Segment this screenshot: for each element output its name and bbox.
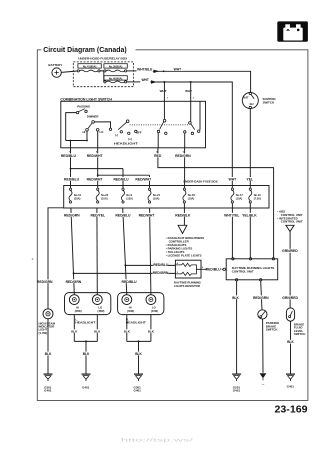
svg-text:HI: HI	[82, 130, 85, 134]
svg-text:BLK: BLK	[94, 330, 101, 334]
svg-text:RED/YEL: RED/YEL	[90, 213, 105, 217]
fuse No.22 (10A)	[96, 188, 109, 203]
wire BLK control unit to ground	[236, 281, 238, 374]
wire RED/BLK fuse18 out	[183, 203, 185, 225]
wire label RED/GRN col1	[66, 279, 82, 284]
svg-text:No.9: No.9	[126, 193, 132, 197]
wire BLK R headlight LO	[150, 315, 152, 342]
svg-text:WHT: WHT	[174, 68, 182, 72]
battery	[48, 63, 62, 78]
svg-text:WHT/YEL: WHT/YEL	[224, 213, 239, 217]
svg-text:RED/BLU: RED/BLU	[113, 177, 129, 181]
svg-text:No.13: No.13	[74, 193, 82, 197]
fuse No.9 (10A)	[122, 188, 134, 203]
svg-text:(45W): (45W)	[97, 310, 104, 313]
fuse No.41 (80A)	[77, 64, 101, 72]
wire RED/WHT pin down with jog to col4	[98, 148, 150, 188]
wire label WHT/BLU	[137, 67, 153, 71]
fuse No.40 (40A)	[104, 76, 128, 83]
svg-text:No.17: No.17	[236, 193, 244, 197]
wire RED/WHT col4 to R headlight LO	[150, 208, 151, 295]
wire dimmer HI to pin1 bus	[66, 131, 87, 140]
note ABS / integrated control unit	[277, 210, 303, 224]
wire BLK high beam indicator to ground	[47, 319, 49, 374]
wire label YEL	[245, 177, 254, 181]
svg-text:RED/WHT: RED/WHT	[135, 177, 152, 181]
wire label GRN/RED	[282, 249, 298, 253]
wire RED/BLU col3 to R headlight HI	[123, 208, 127, 295]
svg-text:No.22: No.22	[101, 193, 109, 197]
wire label RED/WHT row3	[139, 213, 156, 217]
svg-text:OFF: OFF	[136, 131, 142, 135]
svg-text:RED/WHT: RED/WHT	[87, 154, 104, 158]
wire label BLK	[70, 329, 78, 333]
svg-text:SWITCH: SWITCH	[294, 332, 305, 336]
wire RED/GRN tap to left	[48, 208, 64, 309]
wire label WHT	[141, 78, 151, 82]
wire label BLK	[123, 329, 131, 333]
fuse No.16 (7.5A)	[249, 188, 262, 203]
svg-text:RED/BLU: RED/BLU	[153, 263, 169, 267]
wire RED/GRN junction col1 to resistor	[74, 272, 176, 274]
wire dimmer LO to pin	[97, 131, 99, 148]
svg-text:IG2: IG2	[250, 103, 255, 106]
arrow from ABS note	[286, 225, 294, 231]
wire RED/BLU junction col3 to resistor	[125, 264, 175, 266]
svg-text:DIMMER: DIMMER	[87, 115, 100, 119]
wire RED/BLU pin1 down with jog to col3	[71, 148, 124, 188]
wire label BLK	[147, 329, 155, 333]
wire label RED/BLU row2b	[113, 177, 129, 181]
wire pole3 aux contact feed	[199, 101, 201, 130]
wire label RED/BLU	[61, 153, 77, 157]
wire label WHT/YEL	[224, 213, 240, 217]
svg-text:HEADLIGHT: HEADLIGHT	[126, 321, 146, 325]
svg-text:RED/WHT: RED/WHT	[87, 177, 104, 181]
junction	[190, 81, 192, 83]
svg-text:WHT/BLU: WHT/BLU	[137, 68, 153, 72]
svg-text:RED/GRN: RED/GRN	[37, 280, 53, 284]
dimmer switch	[82, 115, 104, 134]
wire BLK R headlight HI	[126, 315, 128, 342]
svg-text:(•): (•)	[115, 133, 118, 137]
junction	[73, 272, 75, 274]
daytime running lights control unit	[226, 258, 278, 281]
svg-text:SWITCH: SWITCH	[266, 328, 277, 332]
svg-text:No.41(80A): No.41(80A)	[83, 64, 97, 68]
wire RED/BLU resistor to control unit	[201, 268, 226, 270]
svg-text:No.16: No.16	[254, 193, 262, 197]
wire label RED/WHT row2	[87, 177, 104, 181]
svg-text:YEL/BLK: YEL/BLK	[242, 213, 257, 217]
wire label RED/BLU resistor input	[153, 263, 169, 268]
svg-text:YEL: YEL	[246, 177, 253, 181]
ignition switch	[242, 92, 275, 109]
wire BLK brake fluid switch to ground	[290, 321, 292, 374]
svg-text:(10A): (10A)	[153, 196, 160, 200]
svg-text:(10A): (10A)	[188, 196, 195, 200]
wire RED/GRN control unit to parking brake switch	[261, 281, 262, 310]
page frame border	[37, 50, 308, 401]
pin numbers	[69, 98, 195, 154]
svg-text:BATTERY: BATTERY	[48, 63, 62, 67]
L headlight	[65, 293, 111, 325]
wire pin1 drop	[70, 141, 72, 148]
headlight switch pole1	[109, 120, 142, 146]
svg-text:No.39(50A): No.39(50A)	[109, 64, 123, 68]
body ground parking brake switch	[260, 373, 267, 384]
daytime running lights resistor	[174, 260, 204, 288]
wire label RED/GRN	[253, 295, 269, 299]
svg-text:UNDER-DASH FUSE BOX: UNDER-DASH FUSE BOX	[183, 179, 218, 183]
svg-text:23-169: 23-169	[275, 404, 308, 415]
svg-text:RED/BLU: RED/BLU	[206, 268, 222, 272]
wire label GRN/RED	[282, 295, 298, 299]
svg-text:GRN/RED: GRN/RED	[282, 249, 298, 253]
svg-text:CONTROL UNIT: CONTROL UNIT	[232, 269, 254, 273]
headlight switch pole2	[157, 119, 167, 134]
wire YEL ignition IG2 to fuse No.16	[249, 109, 251, 188]
wire passing to pin1 bus	[66, 113, 77, 141]
svg-text:(10A): (10A)	[126, 196, 133, 200]
fuse No.13 (10A)	[69, 188, 82, 203]
ground G201/G401 control unit	[232, 374, 241, 393]
wire label BLK	[286, 340, 294, 344]
wire RED/GRN col1 to L headlight HI	[71, 208, 74, 295]
ground G401 L headlight	[82, 374, 91, 389]
svg-text:(65W): (65W)	[127, 310, 134, 313]
wire BLK merge L headlight	[74, 341, 97, 373]
brake fluid level switch	[286, 308, 305, 336]
svg-text:GRN/RED: GRN/RED	[282, 296, 298, 300]
junction	[124, 264, 126, 266]
parking brake switch	[258, 310, 280, 332]
svg-text:(1.4W): (1.4W)	[39, 331, 48, 335]
svg-text:htto://tsp.ws/: htto://tsp.ws/	[121, 438, 195, 443]
wire WHT/BLU - WHT to ignition switch BAT	[127, 70, 251, 93]
svg-text:No.40(40A): No.40(40A)	[109, 76, 123, 80]
wire RED from switch to control unit	[158, 148, 274, 258]
svg-text:RED/GRN: RED/GRN	[175, 154, 191, 158]
svg-text:COMBINATION LIGHT SWITCH: COMBINATION LIGHT SWITCH	[60, 98, 112, 102]
chapter tab battery icon	[277, 21, 308, 41]
junction	[97, 174, 99, 176]
svg-text:G401: G401	[82, 385, 90, 389]
svg-text:BLK: BLK	[232, 296, 239, 300]
svg-text:PASSING: PASSING	[77, 104, 91, 108]
svg-text:UNDER-HOOD FUSE/RELAY BOX: UNDER-HOOD FUSE/RELAY BOX	[78, 57, 128, 61]
wire WHT drop to light switch pole3	[190, 82, 192, 101]
junction	[85, 340, 87, 342]
svg-text:G401: G401	[233, 389, 241, 393]
wire fuse41 to fuse39	[100, 71, 104, 82]
combination light switch box	[60, 98, 205, 148]
wire label WHT	[228, 177, 238, 181]
svg-text:G401: G401	[134, 389, 142, 393]
junction	[70, 168, 72, 170]
svg-text:No.21: No.21	[153, 193, 161, 197]
fuse No.21 (10A)	[148, 188, 161, 203]
svg-text:RED: RED	[154, 154, 162, 158]
svg-text:RED/BLU: RED/BLU	[64, 177, 80, 181]
svg-text:• LICENSE PLATE LIGHTS: • LICENSE PLATE LIGHTS	[166, 254, 202, 258]
wire parking brake switch to ground	[262, 319, 264, 373]
svg-text:BAT: BAT	[244, 97, 249, 100]
under-dash fuse box	[64, 179, 269, 208]
wire label RED/GRN resistor input	[153, 271, 169, 276]
svg-text:(45W): (45W)	[151, 310, 158, 313]
svg-text:HEADLIGHT: HEADLIGHT	[114, 142, 138, 146]
wire YEL/BLK fuse16 to control unit	[249, 203, 251, 258]
svg-text:BLK: BLK	[148, 330, 155, 334]
arrow to lights	[178, 225, 187, 233]
svg-text:LIGHTS RESISTOR: LIGHTS RESISTOR	[174, 284, 201, 288]
wire pole2 out to pin	[157, 133, 159, 148]
svg-text:(65W): (65W)	[75, 310, 82, 313]
junction	[163, 81, 165, 83]
svg-text:RED/BLU: RED/BLU	[61, 154, 77, 158]
ground G301/G401 R headlight	[134, 374, 143, 393]
svg-text:SWITCH: SWITCH	[263, 101, 274, 105]
svg-text:RED/BLU: RED/BLU	[115, 213, 131, 217]
passing switch	[76, 104, 90, 113]
junction	[70, 140, 72, 142]
wire BLK L headlight HI	[73, 315, 75, 342]
wire BLK merge R headlight	[127, 341, 151, 373]
headlight switch pole3	[184, 122, 200, 135]
svg-text:(10A): (10A)	[236, 196, 243, 200]
fuse No.18 (10A)	[183, 188, 196, 203]
wire pole2 feed	[163, 101, 165, 119]
svg-text:RED/BLU: RED/BLU	[122, 280, 138, 284]
wire WHT drop to light switch pole2	[163, 82, 165, 101]
wire battery to fuse box	[61, 71, 77, 72]
ground G301/G401 high beam indicator	[44, 374, 53, 393]
wire label RED/GRN row3	[64, 213, 80, 217]
R headlight	[118, 293, 164, 325]
wire GRN/RED down to brake fluid switch	[289, 232, 291, 308]
svg-text:RED/GRN: RED/GRN	[253, 296, 269, 300]
svg-text:HEADLIGHT: HEADLIGHT	[75, 321, 95, 325]
svg-text:RED/GRN: RED/GRN	[66, 280, 82, 284]
wire label RED/GRN	[175, 153, 191, 157]
wire label RED	[153, 153, 162, 157]
wire label RED/BLU col3	[122, 279, 138, 284]
svg-text:No.18: No.18	[188, 193, 196, 197]
svg-text:G401: G401	[44, 389, 52, 393]
load list dashlights etc	[166, 236, 205, 258]
wire label RED/BLU row2	[64, 177, 80, 181]
ground G401 brake fluid switch	[286, 374, 295, 389]
wire WHT/YEL fuse17 to control unit	[231, 203, 233, 258]
svg-text:BLK: BLK	[83, 352, 90, 356]
wire label BLK	[134, 352, 142, 356]
wire label RED/WHT	[87, 153, 104, 157]
wire label YEL/BLK	[242, 213, 257, 217]
wire label BLK	[44, 352, 52, 356]
wire label BLK	[82, 352, 90, 356]
svg-text:(10A): (10A)	[74, 196, 81, 200]
svg-text:RED/GRN: RED/GRN	[64, 213, 80, 217]
svg-text:BLK: BLK	[287, 340, 294, 344]
wire pole3 feed	[190, 101, 192, 121]
svg-text:(7.5A): (7.5A)	[254, 196, 261, 200]
under-hood fuse/relay box	[73, 57, 133, 87]
mechanical link dashed	[130, 124, 190, 126]
wire label BLK	[231, 295, 239, 299]
svg-text:WHT: WHT	[141, 78, 149, 82]
svg-text:WHT: WHT	[185, 89, 192, 93]
wire RED/GRN from switch to fuse No.18	[184, 148, 186, 188]
wire BLK L headlight LO	[96, 315, 98, 342]
svg-text:RED/WHT: RED/WHT	[139, 213, 156, 217]
wire label BLK	[93, 329, 101, 333]
wire RED/YEL col2 to L headlight LO	[96, 208, 98, 295]
svg-text:CONTROL UNIT: CONTROL UNIT	[281, 220, 303, 224]
svg-text:BLK: BLK	[135, 352, 142, 356]
wire label RED/BLU row3	[115, 213, 131, 217]
fuse No.39 (50A)	[104, 64, 128, 72]
svg-text:BLK: BLK	[45, 352, 52, 356]
wire label RED/BLK	[175, 213, 191, 217]
high beam indicator light	[39, 309, 56, 335]
svg-text:G401: G401	[287, 385, 295, 389]
wire dimmer common to headlight contact	[95, 122, 111, 128]
svg-text:BLK: BLK	[71, 330, 78, 334]
wire label RED/GRN left column	[37, 279, 53, 284]
svg-text:Circuit Diagram (Canada): Circuit Diagram (Canada)	[43, 45, 127, 54]
svg-text:WHT: WHT	[229, 177, 238, 181]
wire pole3 out to pin	[184, 133, 186, 148]
svg-text:RED/GRN: RED/GRN	[153, 271, 169, 275]
svg-text:RED/BLK: RED/BLK	[175, 213, 191, 217]
wire label WHT	[173, 67, 183, 71]
svg-text:BLK: BLK	[124, 330, 131, 334]
fuse No.17 (10A)	[231, 188, 244, 203]
junction	[138, 340, 140, 342]
junction	[86, 140, 88, 142]
wire label RED/WHT row2b	[135, 177, 152, 181]
svg-text:(≡): (≡)	[128, 137, 132, 141]
scan speck	[32, 258, 34, 260]
wire WHT from fuse40	[127, 80, 233, 188]
svg-text:WHT: WHT	[160, 89, 167, 93]
wire label RED/YEL row3	[90, 213, 105, 217]
svg-text:(10A): (10A)	[101, 196, 108, 200]
